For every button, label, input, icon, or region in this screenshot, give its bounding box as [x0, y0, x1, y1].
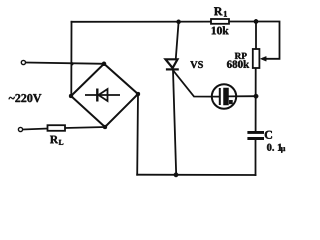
label 10k: [212, 26, 229, 34]
terminal lower AC input: [18, 127, 22, 131]
resistor RL: [48, 125, 66, 131]
wire capacitor bottom lead: [255, 140, 257, 175]
label C: [265, 131, 272, 139]
wire bottom rail: [137, 174, 255, 176]
wire RL to bridge bottom corner: [65, 127, 105, 128]
label VS: [190, 61, 203, 68]
wiper arrowhead: [260, 56, 266, 61]
wire RP bottom to capacitor: [255, 68, 257, 131]
bridge rectifier diamond: [71, 64, 138, 127]
wire upper terminal to bridge top corner: [26, 63, 104, 64]
label 680k: [227, 60, 249, 68]
wire bridge right corner down: [136, 94, 139, 175]
wire RP wiper (rheostat link): [256, 22, 280, 59]
potentiometer RP: [253, 49, 260, 68]
node bottom rail junction: [174, 173, 178, 177]
label ~220V: [9, 94, 42, 102]
diode inside bridge: [85, 89, 120, 102]
node bridge left corner: [69, 94, 73, 98]
node crossing tick: [71, 62, 74, 65]
neon lamp: [212, 84, 236, 108]
node neon-RC junction: [254, 94, 258, 98]
wire gate diagonal to neon lamp: [174, 72, 220, 97]
node thyristor anode junction: [177, 20, 181, 24]
label R1: [214, 7, 223, 15]
label RL: [50, 136, 58, 144]
wire top rail right segment: [229, 21, 256, 23]
node bridge bottom corner: [103, 125, 107, 129]
wire thyristor cathode down to bottom rail: [173, 70, 176, 175]
terminal upper AC input: [21, 60, 25, 64]
node bridge right corner: [136, 92, 140, 96]
node bridge top corner: [102, 62, 106, 66]
thyristor VS: [166, 59, 179, 69]
wire top rail left segment: [72, 21, 212, 23]
wire RP top lead: [255, 22, 257, 50]
label 0.1u: [267, 144, 285, 153]
label RP: [235, 53, 247, 59]
wire lower terminal to RL: [23, 129, 48, 130]
node RP top junction: [254, 19, 258, 23]
wire neon lamp right lead to node: [229, 95, 257, 97]
wire thyristor anode (top rail to VS): [176, 22, 179, 59]
resistor R1: [211, 19, 229, 24]
wire left vertical (bridge left corner to top rail): [70, 22, 72, 96]
capacitor C: [247, 131, 264, 140]
